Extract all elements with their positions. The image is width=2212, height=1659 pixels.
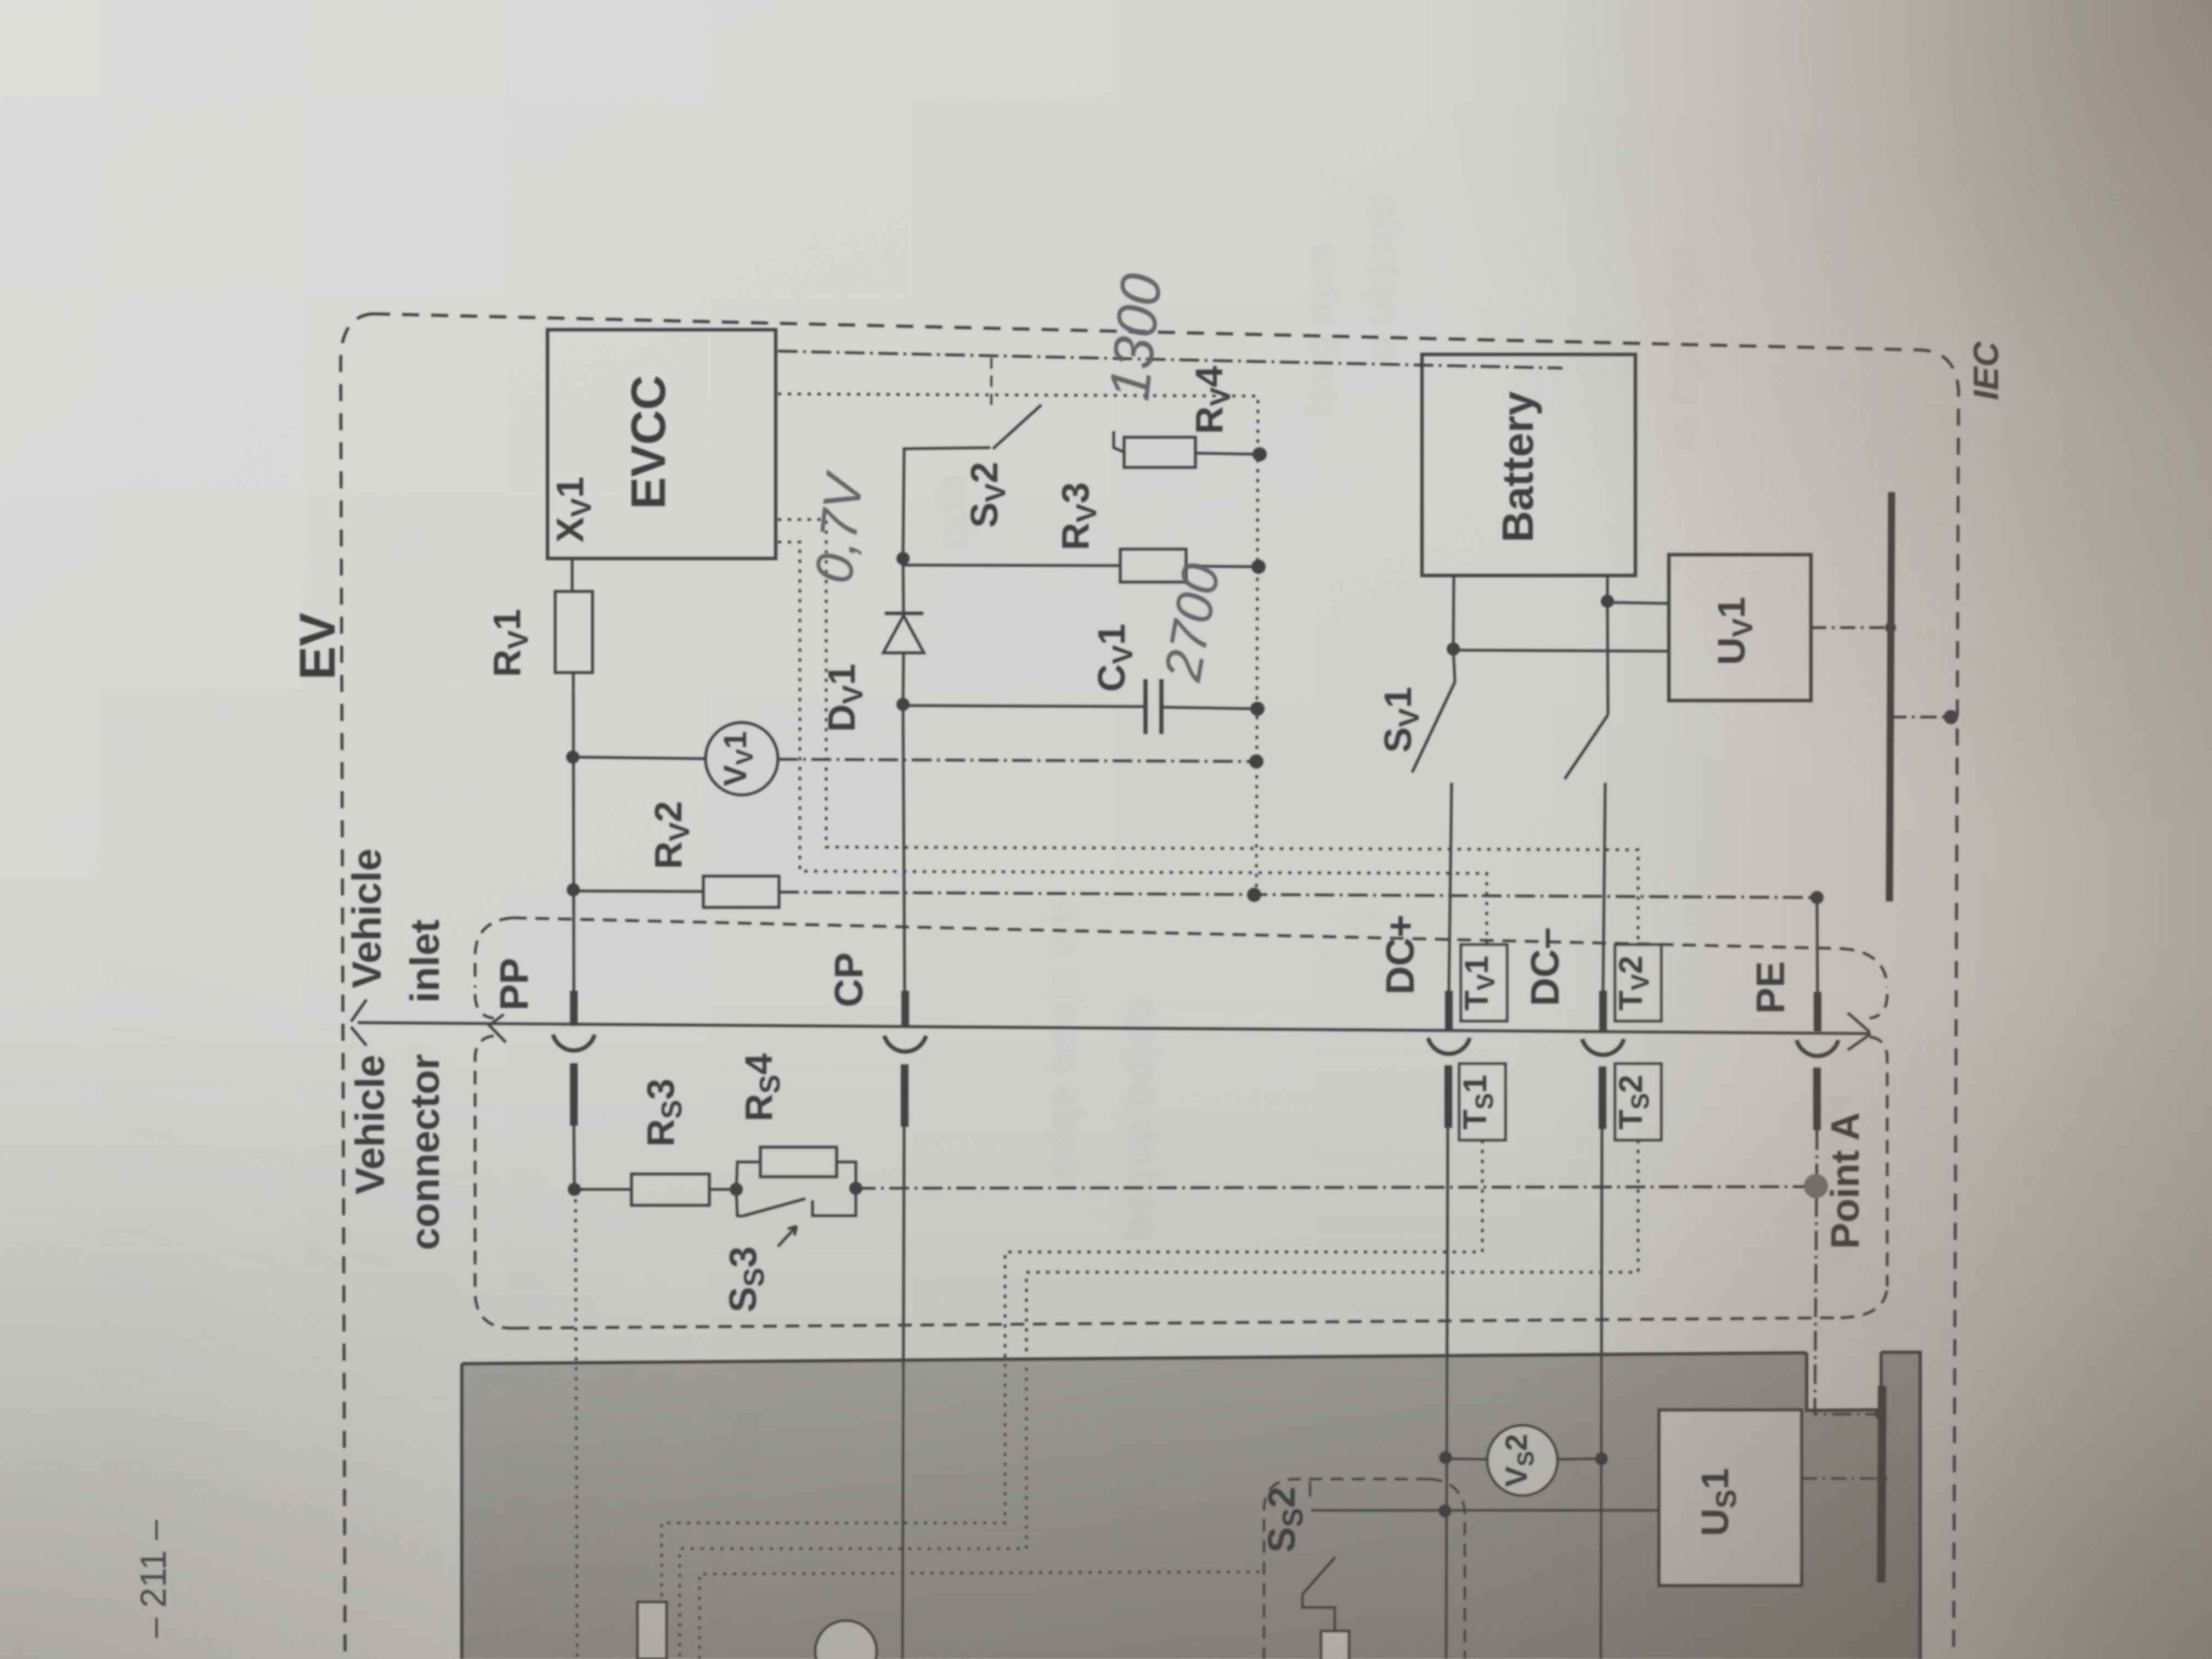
CP connector socket arc [884,1036,926,1052]
temperature sensor Ts2 [1615,1064,1661,1140]
vehicle connector / inlet dashed rounded boundary (top band) [513,918,1841,949]
interface (mating plane) line [358,1023,1871,1034]
wire node to Rs3 [574,1188,631,1191]
node Rs4/Ss3 left [730,1183,743,1196]
node PE/earth bar [1875,1409,1884,1419]
node PE line / rail [1810,891,1824,904]
node CP-Cv1 [896,698,910,711]
dashed control box around Ss2 [1264,1479,1429,1659]
wire EVCC pin to Rv1 [571,558,574,591]
wire Vv1 to PE reference (dash-dot) [778,759,1256,761]
connector/inlet boundary adjacent corners at interface [475,994,494,1295]
switch Ss3 actuator arrow [778,1226,797,1246]
wire Us1 to Ss2 [1311,1509,1659,1512]
wire Rv4 to bus [1195,453,1260,454]
node on EV boundary [1944,710,1958,724]
wire Rv2 to PE rail (dash-dot) [779,892,1817,898]
PE inlet contact pin [1814,992,1821,1031]
wire PP to Rs3 node [574,1126,574,1189]
DC- connector pin [1599,1066,1606,1129]
dotted supply line to Ss2 [699,1572,1262,1659]
PP connector socket arc [553,1035,595,1051]
node Vs2/DC+ [1439,1451,1452,1464]
PE connector pin [1813,1068,1821,1130]
resistor Rv4 [1124,437,1195,467]
voltage monitor Uv1 box [1669,555,1811,701]
resistor Rv3 [1120,549,1186,582]
DC- connector socket arc [1582,1039,1624,1055]
PE connector socket arc [1797,1040,1838,1056]
dash-dot Uv1 to bus [1811,627,1889,629]
DC+ connector socket arc [1428,1038,1470,1054]
DC- inlet contact pin [1599,991,1607,1030]
wire DC- into supply [1601,1129,1602,1659]
node PP-Rv2 [567,883,580,896]
dash-dot bus to EV boundary [1890,716,1949,719]
switch Sv2 blade [993,405,1041,449]
node bus / Rv2 rail [1247,888,1261,902]
node DC- battery [1601,595,1614,608]
node wire/DC+ [1438,1504,1452,1517]
node Uv1/bus [1885,622,1896,633]
wire PP into supply (dotted) [575,1189,577,1659]
vehicle chassis bus bar [1889,492,1892,901]
battery box [1422,354,1635,575]
vehicle connector dashed boundary (bottom edge) [516,1318,1841,1328]
voltmeter Vs1 (partially visible) [815,1621,877,1659]
resistor Rs3 [631,1174,709,1205]
wire Vs2 left [1446,1459,1487,1459]
branch up to Rs4 [736,1162,760,1189]
leader Y arrows at interface [351,1000,366,1046]
wire Rs4 right [837,1162,856,1188]
wire DC+ into supply [1446,1128,1448,1659]
DC+ connector pin [1444,1065,1452,1128]
supply source Us1 box [1659,1410,1802,1585]
node PP-Rs3 [568,1183,581,1196]
battery positive wire [1453,575,1454,649]
temperature sensor Tv2 [1615,945,1661,1021]
temperature sensor Ts1 [1459,1064,1505,1140]
node CP-Rv3-Dv1 [896,552,910,565]
node PP-Vv1 [566,751,579,764]
PP connector pin [570,1063,578,1126]
voltmeter Vs2 [1487,1425,1558,1496]
battery negative wire [1606,575,1609,601]
dotted control EVCC to Tv1 [778,542,1487,945]
wire Rs3 to parallel group [709,1188,736,1191]
wire to Rv2 [573,891,703,891]
wire PP conductor Rv1 to inlet contact [573,673,574,992]
wire CP into supply [902,1127,904,1659]
wire Rv3 to bus [1186,566,1259,567]
PP inlet contact pin [570,991,578,1026]
switch Ss3 branch [736,1189,742,1216]
resistor Rv1 [555,591,592,673]
temperature sensor Tv1 [1461,945,1507,1021]
CP conductor from EVCC area: Sv2 vertical [903,448,990,558]
dotted control EVCC to Tv2 [778,520,1638,945]
wire node to Rv3 [903,565,1120,566]
wire battery- to Uv1 [1607,602,1669,603]
node Point A [1804,1174,1828,1198]
resistor Rv2 [703,876,779,907]
gray DC-supply equipment box [462,1352,1920,1659]
node DC+ battery [1447,642,1460,656]
PE conductor upper segment [1817,898,1818,993]
switch Sv2 fixed contact [1114,431,1124,452]
wire node to diode [903,558,904,616]
switch Sv2 actuator (dashed) [990,358,992,409]
node Rs4/Ss3 right [849,1182,862,1195]
DC+ inlet contact pin [1445,991,1453,1029]
node Rv4/bus [1252,447,1267,461]
supply earth bus bar [1881,1386,1882,1583]
dash-dot control line EVCC to Sv2/Sv1 [778,351,1562,368]
node on reference bus [1249,754,1263,769]
switch Ss3 fixed contact [812,1188,856,1216]
node Us1/earth bar [1876,1473,1887,1484]
wire to capacitor Cv1 [903,706,1145,707]
wire proximity chain to Point A (dash-dot) [856,1187,1816,1188]
resistor Rs2 (partial) [1321,1631,1349,1659]
resistor Rs1 (partial) [637,1602,667,1659]
CP inlet contact pin [901,991,909,1027]
wire to voltmeter Vv1 [573,757,706,759]
control pilot reference bus (dash-dot vertical) [778,394,1258,895]
dotted Ts2 to supply [680,1140,1638,1659]
switch Ss3 blade [742,1199,805,1216]
wire Vs2 right [1558,1459,1601,1459]
switch Ss2 [1309,1481,1312,1497]
wire CP conductor to inlet contact [903,704,905,992]
wire battery+ to Uv1 [1453,650,1669,651]
capacitor Cv1 [1143,679,1148,734]
node Vs2/DC- [1595,1452,1608,1465]
resistor Rs4 [760,1147,837,1177]
ghost show-through from reverse page side [723,193,1852,1591]
EVCC box Xv1 [548,330,776,558]
node Rv3/bus [1251,560,1266,574]
EV dashed boundary box [341,314,373,1659]
contactor Sv1 pole 1 [1453,649,1455,682]
voltmeter Vv1 [706,723,778,795]
node Cv1/bus [1250,702,1265,716]
wire Cv1 to bus [1161,707,1257,709]
contactor Sv1 pole 2 [1607,602,1608,715]
CP connector pin [901,1064,909,1127]
PE dash-dot to supply earth [1815,1130,1878,1414]
dash-dot Us1 to earth bar [1802,1477,1881,1480]
diode Dv1 [885,612,923,615]
dotted Ts1 to supply [662,1140,1482,1659]
